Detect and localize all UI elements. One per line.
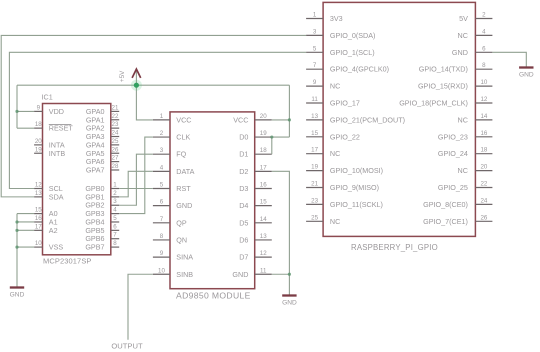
- svg-text:GPIO_18(PCM_CLK): GPIO_18(PCM_CLK): [399, 99, 468, 108]
- svg-text:21: 21: [112, 104, 119, 111]
- svg-text:5: 5: [160, 182, 164, 189]
- svg-text:8: 8: [160, 233, 164, 240]
- wire VSS branch: [17, 246, 34, 248]
- svg-text:13: 13: [260, 233, 267, 240]
- svg-text:GND: GND: [282, 300, 297, 307]
- svg-text:INTB: INTB: [49, 149, 66, 158]
- svg-text:NC: NC: [330, 217, 340, 226]
- svg-text:4: 4: [160, 164, 164, 171]
- svg-text:D6: D6: [239, 235, 248, 244]
- svg-text:GPIO_10(MOSI): GPIO_10(MOSI): [330, 166, 383, 175]
- svg-text:21: 21: [311, 181, 318, 188]
- svg-text:26: 26: [112, 146, 119, 153]
- svg-text:10: 10: [158, 267, 165, 274]
- svg-text:D4: D4: [239, 201, 248, 210]
- svg-text:D3: D3: [239, 184, 248, 193]
- svg-text:VSS: VSS: [49, 243, 64, 252]
- svg-text:2: 2: [482, 12, 486, 19]
- svg-text:23: 23: [311, 197, 318, 204]
- svg-text:NC: NC: [458, 115, 468, 124]
- svg-text:GPIO_9(MISO): GPIO_9(MISO): [330, 183, 379, 192]
- wire net DATA: IC1 GPB1 to module DATA: [119, 171, 153, 197]
- svg-text:12: 12: [35, 182, 42, 189]
- svg-text:7: 7: [313, 62, 317, 69]
- svg-text:SINB: SINB: [176, 270, 193, 279]
- svg-text:GND: GND: [452, 48, 468, 57]
- svg-text:GPIO_23: GPIO_23: [438, 132, 468, 141]
- svg-text:D1: D1: [239, 150, 248, 159]
- IC U3: RASPBERRY_PI_GPIO header: [306, 2, 492, 252]
- wire net RST: IC1 GPB0 to module RST: [119, 188, 153, 190]
- svg-text:5: 5: [113, 215, 117, 222]
- svg-text:22: 22: [112, 113, 119, 120]
- svg-text:20: 20: [480, 164, 487, 171]
- svg-text:DATA: DATA: [176, 167, 194, 176]
- svg-text:IC1: IC1: [42, 93, 53, 102]
- svg-text:QN: QN: [176, 235, 187, 244]
- svg-text:8: 8: [482, 62, 486, 69]
- svg-text:VCC: VCC: [176, 115, 191, 124]
- svg-text:18: 18: [35, 121, 42, 128]
- IC U1: MCP23017SP I/O expander (IC1): [34, 93, 119, 266]
- svg-text:7: 7: [113, 232, 117, 239]
- svg-text:1: 1: [113, 182, 117, 189]
- svg-text:19: 19: [260, 130, 267, 137]
- svg-text:GPB7: GPB7: [85, 243, 104, 252]
- wire net FQ: IC1 GPB2 to module FQ: [119, 154, 153, 205]
- wire VCC pin20 branch: [272, 119, 290, 121]
- svg-text:+5V: +5V: [119, 70, 126, 82]
- wire module pin11 GND branch: [272, 273, 290, 275]
- svg-text:GPIO_11(SCKL): GPIO_11(SCKL): [330, 200, 383, 209]
- svg-text:8: 8: [113, 240, 117, 247]
- svg-text:GPIO_0(SDA): GPIO_0(SDA): [330, 31, 376, 40]
- junction D0 node: [270, 135, 273, 138]
- svg-text:10: 10: [35, 240, 42, 247]
- svg-text:15: 15: [260, 199, 267, 206]
- svg-text:D0: D0: [239, 133, 248, 142]
- svg-text:FQ: FQ: [176, 150, 186, 159]
- svg-text:11: 11: [311, 96, 318, 103]
- svg-text:19: 19: [35, 146, 42, 153]
- svg-text:D7: D7: [239, 253, 248, 262]
- wire net SCL: Pi pin5 to IC1 pin12: [9, 52, 306, 188]
- wire net +5V drop to module pin1 VCC: [136, 85, 153, 120]
- ground GND2 (below AD9850 module): [282, 296, 297, 307]
- svg-text:GND: GND: [232, 270, 248, 279]
- svg-text:14: 14: [480, 113, 487, 120]
- svg-text:2: 2: [160, 130, 164, 137]
- svg-text:GPIO_24: GPIO_24: [438, 149, 468, 158]
- wire VDD branch: [17, 110, 34, 112]
- svg-text:9: 9: [37, 104, 41, 111]
- svg-text:NC: NC: [330, 149, 340, 158]
- svg-text:4: 4: [113, 207, 117, 214]
- svg-text:13: 13: [35, 190, 42, 197]
- svg-text:A2: A2: [49, 226, 58, 235]
- svg-text:4: 4: [482, 28, 486, 35]
- svg-text:7: 7: [160, 216, 164, 223]
- junction A2 node: [15, 229, 18, 232]
- wire net +5V right drop to module pin20 VCC and pin19 D0: [288, 85, 290, 137]
- wire net GND: module D2 to GND bus: [272, 171, 290, 294]
- svg-text:22: 22: [480, 181, 487, 188]
- junction +5V main node: [131, 80, 142, 91]
- svg-text:3: 3: [313, 28, 317, 35]
- svg-text:9: 9: [313, 79, 317, 86]
- svg-text:GPIO_4(GPCLK0): GPIO_4(GPCLK0): [330, 65, 389, 74]
- svg-text:3: 3: [113, 198, 117, 205]
- svg-text:11: 11: [260, 267, 267, 274]
- svg-text:24: 24: [112, 130, 119, 137]
- wire net GND: Pi pin6 to right GND: [492, 52, 526, 66]
- ground GND3 (right, Pi pin6): [519, 68, 534, 79]
- svg-text:3: 3: [160, 147, 164, 154]
- junction A1 node: [15, 220, 18, 223]
- IC U2: AD9850 DDS module: [153, 112, 272, 301]
- svg-text:12: 12: [480, 96, 487, 103]
- svg-text:GPIO_17: GPIO_17: [330, 99, 360, 108]
- svg-text:OUTPUT: OUTPUT: [111, 342, 143, 351]
- svg-text:GND: GND: [176, 201, 192, 210]
- svg-text:19: 19: [311, 164, 318, 171]
- svg-text:28: 28: [112, 163, 119, 170]
- svg-text:17: 17: [35, 223, 42, 230]
- wire D0-D1 tie: [271, 137, 273, 154]
- wire net OUTPUT from module SINB: [128, 274, 153, 340]
- svg-text:15: 15: [35, 207, 42, 214]
- svg-text:D5: D5: [239, 218, 248, 227]
- svg-text:12: 12: [260, 250, 267, 257]
- svg-text:VCC: VCC: [233, 115, 248, 124]
- svg-text:9: 9: [160, 250, 164, 257]
- svg-text:16: 16: [35, 215, 42, 222]
- junction module GND pin11 node: [288, 273, 291, 276]
- svg-text:NC: NC: [330, 82, 340, 91]
- svg-text:26: 26: [480, 214, 487, 221]
- svg-text:2: 2: [113, 190, 117, 197]
- svg-text:GPIO_15(RXD): GPIO_15(RXD): [418, 82, 468, 91]
- svg-text:5: 5: [313, 45, 317, 52]
- svg-text:1: 1: [160, 113, 164, 120]
- svg-text:15: 15: [311, 130, 318, 137]
- svg-text:20: 20: [35, 138, 42, 145]
- svg-text:25: 25: [311, 214, 318, 221]
- svg-text:13: 13: [311, 113, 318, 120]
- svg-text:NC: NC: [458, 31, 468, 40]
- svg-text:16: 16: [480, 130, 487, 137]
- svg-text:D2: D2: [239, 167, 248, 176]
- svg-text:1: 1: [313, 12, 317, 19]
- svg-text:SDA: SDA: [49, 192, 64, 201]
- junction module VCC pin20 node: [288, 118, 291, 121]
- svg-text:SINA: SINA: [176, 253, 193, 262]
- svg-text:MCP23017SP: MCP23017SP: [43, 257, 92, 266]
- svg-text:6: 6: [482, 45, 486, 52]
- svg-text:QP: QP: [176, 218, 187, 227]
- wire A1 branch: [17, 221, 34, 223]
- svg-text:GPA7: GPA7: [86, 165, 105, 174]
- svg-text:RST: RST: [176, 184, 191, 193]
- svg-text:GPIO_21(PCM_DOUT): GPIO_21(PCM_DOUT): [330, 115, 405, 124]
- wire net +5V horizontal rail: [17, 84, 289, 86]
- svg-text:3V3: 3V3: [330, 14, 343, 23]
- svg-text:18: 18: [260, 147, 267, 154]
- svg-text:24: 24: [480, 197, 487, 204]
- svg-text:VDD: VDD: [49, 107, 64, 116]
- svg-text:RASPBERRY_PI_GPIO: RASPBERRY_PI_GPIO: [351, 243, 438, 252]
- svg-text:AD9850 MODULE: AD9850 MODULE: [176, 291, 251, 301]
- svg-text:25: 25: [112, 138, 119, 145]
- junction VSS node: [15, 245, 18, 248]
- svg-text:18: 18: [480, 147, 487, 154]
- svg-text:27: 27: [112, 155, 119, 162]
- power symbol +5V: [119, 69, 141, 85]
- svg-text:GPIO_1(SCL): GPIO_1(SCL): [330, 48, 375, 57]
- svg-text:20: 20: [260, 113, 267, 120]
- wire A2 branch: [17, 229, 34, 231]
- svg-text:GPIO_8(CE0): GPIO_8(CE0): [423, 200, 468, 209]
- wire net CLK: IC1 GPB3 to module CLK: [119, 137, 153, 214]
- svg-text:GPIO_14(TXD): GPIO_14(TXD): [419, 65, 468, 74]
- wire A0 branch: [17, 213, 34, 215]
- svg-text:6: 6: [160, 199, 164, 206]
- svg-text:NC: NC: [458, 166, 468, 175]
- svg-text:GPIO_7(CE1): GPIO_7(CE1): [423, 217, 468, 226]
- svg-text:16: 16: [260, 182, 267, 189]
- svg-text:10: 10: [480, 79, 487, 86]
- svg-text:GND: GND: [10, 292, 25, 299]
- svg-text:6: 6: [113, 223, 117, 230]
- wire net SDA: Pi pin3 to IC1 pin13: [1, 35, 306, 196]
- ground GND1 (left, IC1 VSS/address pins): [10, 288, 25, 299]
- wire net GND left bus for A0 A1 A2 VSS: [16, 214, 18, 287]
- junction VDD node: [15, 110, 18, 113]
- wire net +5V left drop to IC1 VDD and RESET: [16, 85, 18, 128]
- svg-text:5V: 5V: [459, 14, 468, 23]
- svg-text:CLK: CLK: [176, 133, 190, 142]
- wire RESET branch: [17, 127, 34, 129]
- svg-text:17: 17: [260, 164, 267, 171]
- svg-text:14: 14: [260, 216, 267, 223]
- svg-text:GND: GND: [519, 72, 534, 79]
- svg-text:GPIO_25: GPIO_25: [438, 183, 468, 192]
- svg-text:RESET: RESET: [49, 124, 74, 133]
- svg-text:23: 23: [112, 121, 119, 128]
- wire D0 branch: [272, 136, 290, 138]
- svg-text:GPIO_22: GPIO_22: [330, 132, 360, 141]
- svg-text:17: 17: [311, 147, 318, 154]
